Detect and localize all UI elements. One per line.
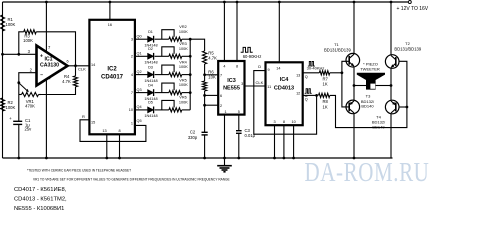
wire VR3 to bus bbox=[182, 55, 190, 57]
pin 8 wire bbox=[236, 2, 238, 61]
svg-text:100K: 100K bbox=[23, 38, 33, 43]
svg-text:BD131/BD139: BD131/BD139 bbox=[394, 47, 421, 52]
svg-text:6: 6 bbox=[220, 94, 222, 98]
transistor T1 BD131/BD139 bbox=[353, 2, 355, 54]
wire output to IC2 pin14 bbox=[67, 65, 89, 67]
svg-text:10K: 10K bbox=[208, 74, 216, 79]
svg-text:100K: 100K bbox=[179, 47, 188, 51]
svg-text:IC2: IC2 bbox=[107, 67, 117, 73]
IC3 NE555 box bbox=[218, 61, 244, 115]
pin 16 wire bbox=[109, 2, 111, 20]
variable resistor VR2 100K bbox=[169, 37, 182, 41]
wire ground bottom rail bbox=[3, 157, 393, 159]
pin 13 wire bbox=[106, 134, 108, 158]
junction T3 ground bbox=[353, 157, 356, 160]
svg-text:3: 3 bbox=[131, 38, 133, 42]
pin 4 wire bbox=[223, 2, 225, 61]
svg-text:14: 14 bbox=[91, 63, 95, 67]
svg-text:60-90KHz: 60-90KHz bbox=[243, 54, 262, 59]
resistor R2 bbox=[0, 98, 4, 111]
junction pin1 ground bbox=[223, 157, 226, 160]
wire VR6 to bus bbox=[182, 109, 190, 111]
wire pin6 NE555 bbox=[205, 94, 219, 96]
svg-text:CD4017 - К561ИЕ8,: CD4017 - К561ИЕ8, bbox=[14, 187, 67, 193]
svg-text:+: + bbox=[9, 116, 12, 121]
terminal +12V supply bbox=[408, 1, 411, 4]
svg-text:+: + bbox=[40, 54, 43, 60]
wire VR bus bbox=[189, 39, 191, 110]
svg-text:7: 7 bbox=[48, 45, 51, 50]
resistor R7 1K bbox=[319, 71, 330, 75]
wire bus to R5 bbox=[190, 39, 204, 51]
pin 9 to pin 12 feedback wire bbox=[254, 71, 317, 135]
wire T1 emitter to node bbox=[353, 67, 355, 100]
junction pin16 top rail bbox=[109, 1, 112, 4]
junction bus row2 bbox=[189, 55, 192, 58]
pin 12 wire bbox=[303, 94, 317, 96]
svg-text:Q3: Q3 bbox=[137, 88, 142, 92]
svg-text:CD4013 - К561ТМ2,: CD4013 - К561ТМ2, bbox=[14, 197, 67, 203]
square wave at pin 12 bbox=[305, 89, 312, 94]
resistor R8 1K bbox=[319, 93, 330, 97]
svg-text:3: 3 bbox=[28, 49, 31, 54]
svg-text:T1: T1 bbox=[334, 42, 339, 47]
svg-text:4.7K: 4.7K bbox=[62, 79, 71, 84]
IC2 pin 10 Q4 row wire bbox=[135, 109, 148, 111]
svg-text:2: 2 bbox=[30, 68, 33, 73]
transistor T2 BD131/BD139 bbox=[390, 2, 392, 55]
wire VR2 to bus bbox=[182, 38, 190, 40]
svg-text:10: 10 bbox=[291, 120, 295, 124]
svg-text:BD140: BD140 bbox=[372, 124, 385, 129]
svg-text:VR4: VR4 bbox=[179, 60, 186, 64]
junction VR1 wiper tap bbox=[17, 81, 20, 84]
svg-text:BD140: BD140 bbox=[361, 104, 374, 109]
svg-text:1K: 1K bbox=[323, 104, 328, 109]
svg-text:1: 1 bbox=[224, 110, 226, 114]
svg-text:470K: 470K bbox=[25, 104, 35, 109]
IC2 pin 2 Q1 row wire bbox=[135, 55, 148, 57]
junction C3 ground bbox=[237, 157, 240, 160]
svg-text:5: 5 bbox=[238, 110, 240, 114]
svg-text:+ 12V TO 16V: + 12V TO 16V bbox=[397, 6, 429, 12]
wire diode to VR4 bbox=[155, 74, 169, 76]
op-amp IC1 CA3130 bbox=[37, 46, 68, 86]
pin 4 wire bbox=[45, 80, 47, 159]
svg-text:330p: 330p bbox=[188, 135, 198, 140]
wire diode to VR5 bbox=[155, 92, 169, 94]
svg-text:1N4148: 1N4148 bbox=[144, 114, 157, 118]
junction pin13 ground bbox=[105, 157, 108, 160]
svg-text:*TESTED WITH CERMIC EAR PIECE: *TESTED WITH CERMIC EAR PIECE USED IN TE… bbox=[27, 168, 131, 172]
svg-text:C2: C2 bbox=[190, 130, 196, 135]
IC2 CD4017 box bbox=[89, 20, 134, 135]
wire left rail bbox=[2, 2, 4, 158]
svg-text:8: 8 bbox=[118, 129, 120, 133]
svg-text:R7: R7 bbox=[323, 76, 329, 81]
svg-text:8: 8 bbox=[236, 65, 238, 69]
svg-text:100K: 100K bbox=[179, 83, 188, 87]
svg-text:IC4: IC4 bbox=[280, 77, 290, 83]
wire diode to VR6 bbox=[155, 109, 169, 111]
variable resistor VR6 100K bbox=[169, 108, 182, 112]
ground symbol bbox=[224, 158, 226, 166]
svg-text:CD4013: CD4013 bbox=[274, 86, 294, 92]
resistor R4 bbox=[75, 66, 77, 76]
IC2 pin 7 Q3 row wire bbox=[135, 92, 148, 94]
pin 15 reset wire bbox=[80, 120, 146, 142]
square wave 60-90KHz bbox=[241, 47, 253, 52]
svg-text:16: 16 bbox=[108, 23, 112, 27]
svg-text:BD131/BD139: BD131/BD139 bbox=[324, 47, 351, 52]
svg-text:Q4: Q4 bbox=[137, 105, 142, 109]
svg-text:Q5: Q5 bbox=[137, 119, 142, 123]
svg-text:Q2: Q2 bbox=[137, 70, 142, 74]
junction pin6 tap bbox=[203, 94, 206, 97]
svg-text:12: 12 bbox=[296, 92, 300, 96]
svg-text:2: 2 bbox=[220, 104, 222, 108]
svg-text:100K: 100K bbox=[179, 30, 188, 34]
svg-text:6: 6 bbox=[67, 60, 69, 64]
junction C1 ground bbox=[17, 157, 20, 160]
svg-text:100K: 100K bbox=[6, 105, 16, 110]
svg-text:3: 3 bbox=[273, 120, 275, 124]
svg-text:11: 11 bbox=[267, 85, 271, 89]
svg-text:1K: 1K bbox=[323, 82, 328, 87]
junction speaker right bbox=[390, 84, 393, 87]
svg-text:7: 7 bbox=[131, 91, 133, 95]
svg-text:8: 8 bbox=[283, 120, 285, 124]
svg-text:D4: D4 bbox=[148, 83, 153, 87]
transistor T3 BD132/BD140 bbox=[346, 100, 360, 114]
square wave 30-40KHz bbox=[308, 62, 315, 67]
pin 8 wire bbox=[119, 134, 121, 158]
pin 14 wire bbox=[278, 2, 280, 62]
wire VR5 to bus bbox=[182, 92, 190, 94]
svg-text:D2: D2 bbox=[148, 47, 153, 51]
junction pin12 feedback tap bbox=[315, 94, 318, 97]
wire pin2 NE555 bbox=[205, 104, 219, 106]
junction pin7 tap bbox=[203, 73, 206, 76]
junction speaker left bbox=[353, 84, 356, 87]
svg-text:CA3130: CA3130 bbox=[40, 62, 59, 68]
wire T4 collector to ground bbox=[390, 114, 392, 158]
junction node A on left rail bbox=[1, 53, 4, 56]
wire T1 base bbox=[342, 61, 349, 73]
wire VR4 to bus bbox=[182, 74, 190, 76]
svg-text:−: − bbox=[40, 73, 43, 79]
svg-text:4: 4 bbox=[131, 73, 133, 77]
diode D4 1N4148 bbox=[148, 90, 154, 96]
pin 8 ground wire bbox=[283, 125, 285, 158]
resistor R3 bbox=[19, 32, 24, 55]
wire node A to pin3 bbox=[3, 53, 37, 55]
resistor R6 10K bbox=[203, 81, 207, 91]
svg-text:T2: T2 bbox=[405, 41, 410, 46]
junction pin7 on top rail bbox=[45, 1, 48, 4]
diode D5 1N4148 bbox=[148, 107, 154, 113]
IC2 pin 3 Q0 row wire bbox=[135, 38, 148, 40]
pin 13 wire bbox=[303, 72, 320, 74]
variable resistor VR3 100K bbox=[169, 54, 182, 58]
svg-text:Q: Q bbox=[305, 98, 308, 102]
svg-text:DA-ROM.RU: DA-ROM.RU bbox=[305, 157, 430, 187]
svg-text:D5: D5 bbox=[148, 101, 153, 105]
wire T3 collector to ground bbox=[353, 114, 355, 159]
svg-text:NE555 - К1006ВИ1: NE555 - К1006ВИ1 bbox=[14, 206, 64, 212]
junction bus row3 bbox=[189, 73, 192, 76]
wire pin2 to VR1 C1 bbox=[19, 73, 37, 122]
svg-text:14: 14 bbox=[276, 66, 280, 70]
capacitor C2 330p bbox=[202, 131, 208, 133]
svg-text:CD4017: CD4017 bbox=[101, 75, 124, 81]
svg-text:25v: 25v bbox=[25, 127, 33, 132]
wire VR1 to R4 bbox=[41, 87, 76, 95]
wire pin7 NE555 bbox=[205, 74, 219, 76]
pin 1 wire bbox=[224, 115, 226, 158]
IC2 pin 4 Q2 row wire bbox=[135, 74, 148, 76]
svg-text:R: R bbox=[82, 114, 85, 119]
svg-text:100K: 100K bbox=[179, 65, 188, 69]
svg-text:4.7K: 4.7K bbox=[208, 55, 217, 60]
svg-text:TWEETER: TWEETER bbox=[360, 66, 380, 71]
svg-text:1N4148: 1N4148 bbox=[144, 79, 157, 83]
svg-text:VR5: VR5 bbox=[179, 78, 186, 82]
junction node A R3 tap bbox=[17, 53, 20, 56]
svg-text:1N4148: 1N4148 bbox=[144, 61, 157, 65]
pin 10 ground wire bbox=[293, 125, 295, 158]
svg-text:VR3: VR3 bbox=[179, 42, 186, 46]
wire diode to VR3 bbox=[155, 55, 169, 57]
svg-text:30-40KHz: 30-40KHz bbox=[307, 66, 325, 71]
svg-text:13: 13 bbox=[296, 74, 300, 78]
svg-text:Q0: Q0 bbox=[137, 34, 142, 38]
svg-text:Q: Q bbox=[305, 75, 308, 79]
junction pin2 tap bbox=[203, 104, 206, 107]
svg-text:VR6: VR6 bbox=[179, 96, 186, 100]
svg-text:NE555: NE555 bbox=[223, 86, 240, 92]
junction C2 ground bbox=[203, 157, 206, 160]
transistor T4 BD132/BD140 bbox=[385, 100, 399, 114]
junction bus row4 bbox=[189, 91, 192, 94]
junction output node bbox=[74, 64, 77, 67]
pin 3 ground wire bbox=[274, 125, 276, 158]
svg-text:VR2: VR2 bbox=[179, 25, 186, 29]
wire T3 base bbox=[342, 73, 349, 107]
diode D1 1N4148 bbox=[148, 36, 154, 42]
pin 7 wire bbox=[45, 2, 47, 52]
wire T2 emitter to node bbox=[390, 68, 392, 101]
svg-text:CLK: CLK bbox=[78, 66, 86, 71]
svg-text:4: 4 bbox=[223, 65, 225, 69]
speaker piezo tweeter bbox=[354, 85, 366, 87]
pin 3 output wire bbox=[245, 85, 266, 87]
wire T4 base bbox=[399, 106, 407, 108]
junction T4 base bbox=[406, 106, 409, 109]
wire diode to VR2 bbox=[155, 38, 169, 40]
svg-text:VR1 TO VR6 ARE SET FOR DIFFER: VR1 TO VR6 ARE SET FOR DIFFERENT VALUES … bbox=[33, 178, 230, 182]
svg-text:10: 10 bbox=[129, 108, 133, 112]
wire R8 to T2 T4 bases bbox=[330, 61, 407, 127]
svg-text:CLK: CLK bbox=[256, 80, 264, 85]
resistor R5 4.7K bbox=[203, 51, 207, 64]
svg-text:1: 1 bbox=[131, 122, 133, 126]
svg-text:100K: 100K bbox=[179, 101, 188, 105]
junction bus row1 bbox=[189, 38, 192, 41]
svg-text:IC3: IC3 bbox=[227, 78, 236, 84]
svg-text:D: D bbox=[258, 64, 261, 69]
resistor R1 bbox=[0, 15, 4, 31]
junction pin4 ground bbox=[45, 157, 48, 160]
IC4 CD4013 box bbox=[266, 62, 303, 125]
svg-text:15: 15 bbox=[91, 121, 95, 125]
svg-text:9: 9 bbox=[268, 68, 270, 72]
variable resistor VR4 100K bbox=[169, 73, 182, 77]
svg-text:D1: D1 bbox=[148, 30, 153, 34]
variable resistor VR5 100K bbox=[169, 91, 182, 95]
svg-text:D3: D3 bbox=[148, 65, 153, 69]
svg-text:13: 13 bbox=[102, 129, 106, 133]
svg-text:3: 3 bbox=[241, 82, 243, 86]
junction pin8 ground bbox=[118, 157, 121, 160]
capacitor C1 bbox=[13, 120, 22, 122]
wire +V top rail bbox=[3, 1, 409, 3]
svg-text:7: 7 bbox=[220, 73, 222, 77]
wire R7 to T1 T3 bases bbox=[330, 72, 342, 74]
variable resistor VR1 bbox=[22, 92, 39, 96]
svg-text:Q1: Q1 bbox=[137, 52, 142, 56]
diode D3 1N4148 bbox=[148, 72, 154, 78]
junction T1 T3 base node bbox=[341, 71, 344, 74]
diode D2 1N4148 bbox=[148, 53, 154, 59]
svg-text:2: 2 bbox=[131, 55, 133, 59]
svg-text:100K: 100K bbox=[6, 22, 16, 27]
